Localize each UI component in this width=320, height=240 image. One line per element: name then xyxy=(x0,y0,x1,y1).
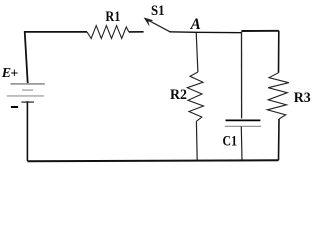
svg-text:R3: R3 xyxy=(294,90,311,106)
svg-text:+: + xyxy=(10,67,18,82)
svg-text:C1: C1 xyxy=(223,134,238,150)
svg-text:S1: S1 xyxy=(151,3,165,19)
svg-text:R2: R2 xyxy=(170,87,187,103)
svg-text:A: A xyxy=(190,16,201,33)
svg-text:R1: R1 xyxy=(105,9,120,25)
